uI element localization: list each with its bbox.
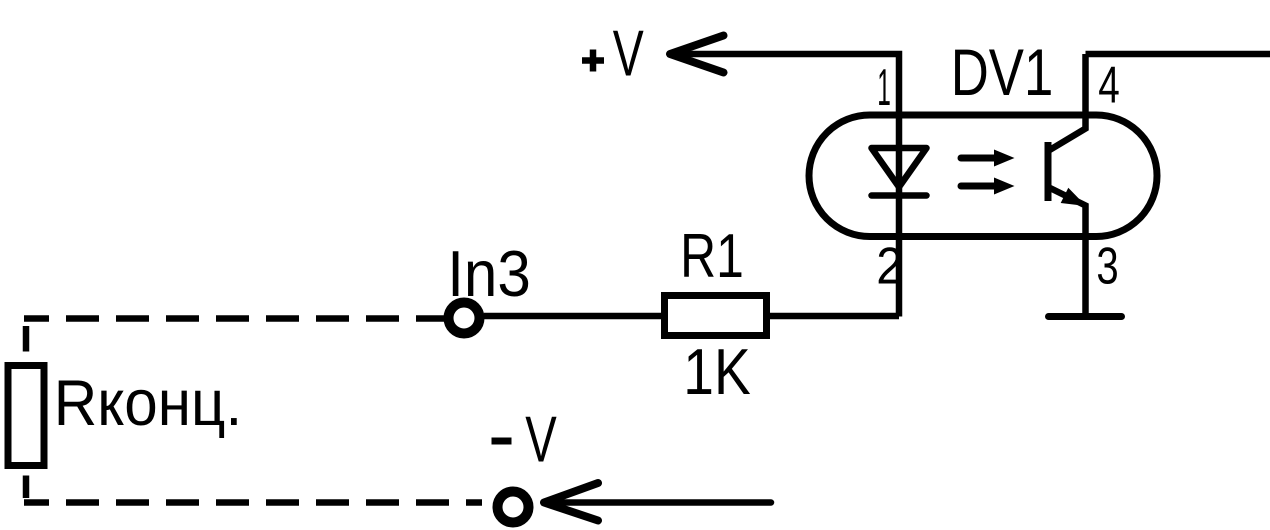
power label +V <box>582 17 644 90</box>
svg-text:V: V <box>613 17 644 90</box>
terminal -V <box>498 492 529 523</box>
wire +V to pin 1 and pin 2 (down to resistor net) <box>668 54 899 317</box>
phototransistor emitter + pin 3 wire <box>1048 187 1086 317</box>
terminal In3 <box>449 303 480 334</box>
resistor R1 <box>665 296 767 336</box>
svg-text:1K: 1K <box>683 335 750 408</box>
phototransistor of DV1: base bar <box>1045 142 1052 201</box>
wire In3 to R1 <box>484 313 663 320</box>
light arrow upper <box>961 150 1015 167</box>
dashed wire vertical lower (from Rkonc) <box>23 476 30 499</box>
svg-text:R1: R1 <box>680 222 744 291</box>
phototransistor collector + pin 4 wire <box>1048 54 1086 151</box>
svg-text:3: 3 <box>1096 238 1118 296</box>
svg-text:V: V <box>525 403 557 476</box>
LED diode of DV1 <box>872 148 927 196</box>
resistor Rkonc <box>8 366 44 466</box>
wire R1 to pin 2 <box>767 313 899 320</box>
dashed wire vertical upper (to Rkonc) <box>23 326 30 352</box>
svg-text:2: 2 <box>876 238 903 296</box>
wire +V rail top right <box>1086 51 1270 58</box>
svg-text:Rконц.: Rконц. <box>54 366 242 439</box>
wire -V <box>544 499 771 506</box>
light arrow lower <box>961 178 1015 195</box>
svg-text:1: 1 <box>877 59 891 117</box>
arrowhead on +V wire <box>670 36 724 73</box>
arrowhead on -V wire <box>544 483 598 521</box>
optocoupler DV1 body <box>809 115 1157 237</box>
emitter arrowhead <box>1061 188 1086 206</box>
common bar at pin 3 <box>1049 313 1122 320</box>
dashed wire to -V terminal <box>24 499 482 506</box>
dashed wire to In3 <box>24 315 445 322</box>
power label -V <box>492 403 558 476</box>
svg-text:4: 4 <box>1098 57 1120 115</box>
svg-text:DV1: DV1 <box>951 35 1054 109</box>
